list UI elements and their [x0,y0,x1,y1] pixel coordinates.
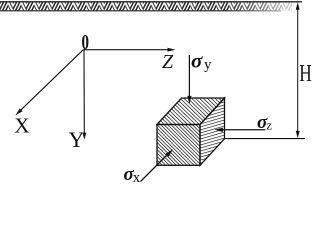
label sigma_x [124,164,141,186]
svg-text:Z: Z [162,51,174,73]
stress arrow sigma_y [187,55,191,104]
svg-text:X: X [14,114,29,138]
cube right face [200,98,225,165]
svg-text:σ: σ [191,49,203,73]
depth dimension line H [296,2,300,138]
svg-text:z: z [266,118,272,133]
stress arrow sigma_z [215,128,266,132]
ground surface hatched band [0,2,302,12]
axis X [15,50,83,116]
svg-text:Y: Y [69,127,85,152]
axis Z [83,48,175,52]
axis Y [82,50,86,140]
svg-text:y: y [204,57,212,73]
depth reference line at cube bottom-right corner [225,138,306,140]
svg-text:x: x [133,170,141,182]
label sigma_y [191,49,212,74]
svg-text:H: H [299,61,312,87]
stress arrow sigma_x [141,149,174,181]
label sigma_z [257,112,272,133]
cube top face [157,98,225,125]
cube front face [157,125,200,166]
